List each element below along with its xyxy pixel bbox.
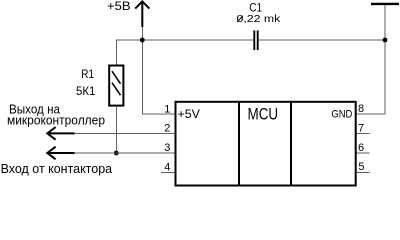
wire pin 7: [356, 132, 370, 134]
svg-text:1: 1: [164, 103, 170, 115]
wire +5V rail right segment (capacitor to ground drop): [259, 39, 385, 41]
svg-text:GND: GND: [331, 109, 352, 121]
wire resistor bottom lead: [115, 106, 117, 153]
wire pin 3 (from contactor): [47, 152, 176, 154]
capacitor C1 plates: [254, 31, 257, 51]
svg-text:8: 8: [358, 103, 364, 115]
svg-text:Вход от контактора: Вход от контактора: [1, 161, 113, 176]
svg-text:5: 5: [358, 161, 364, 173]
MCU box U1: [176, 102, 356, 186]
MCU divider left: [238, 102, 240, 186]
junction dot resistor / pin3 wire: [114, 151, 119, 156]
ground bar (top right): [371, 3, 399, 5]
junction dot +5V arrow / rail: [140, 38, 145, 43]
svg-text:7: 7: [358, 123, 364, 135]
svg-text:+5V: +5V: [178, 107, 200, 121]
resistor R1 body: [109, 66, 123, 106]
wire pin 4 stub: [161, 171, 176, 173]
svg-text:2: 2: [164, 123, 170, 135]
svg-text:3: 3: [164, 142, 170, 154]
wire pin 2 (to microcontroller): [47, 132, 176, 134]
svg-text:MCU: MCU: [248, 105, 279, 124]
svg-text:микроконтроллер: микроконтроллер: [7, 113, 105, 128]
svg-text:6: 6: [358, 142, 364, 154]
wire ground drop to pin 8: [356, 5, 385, 114]
wire arrow stem down to pin 1: [142, 27, 175, 114]
wire +5V rail left segment (corner above resistor to capacitor): [117, 40, 254, 65]
MCU divider right: [290, 102, 292, 186]
svg-text:4: 4: [164, 162, 170, 174]
svg-text:5К1: 5К1: [76, 84, 96, 98]
arrow input from contactor: [47, 147, 75, 160]
junction dot rail / ground drop: [383, 38, 388, 43]
wire pin 5: [356, 171, 370, 173]
power arrow +5V: [135, 1, 149, 27]
svg-text:+5В: +5В: [107, 0, 131, 13]
label 0,22 mk (with slashed zero): [237, 14, 282, 25]
arrow output to microcontroller: [47, 127, 75, 140]
wire pin 6: [356, 152, 370, 154]
svg-text:0,22 mk: 0,22 mk: [237, 14, 282, 25]
svg-text:R1: R1: [81, 67, 94, 81]
svg-text:C1: C1: [249, 0, 262, 14]
